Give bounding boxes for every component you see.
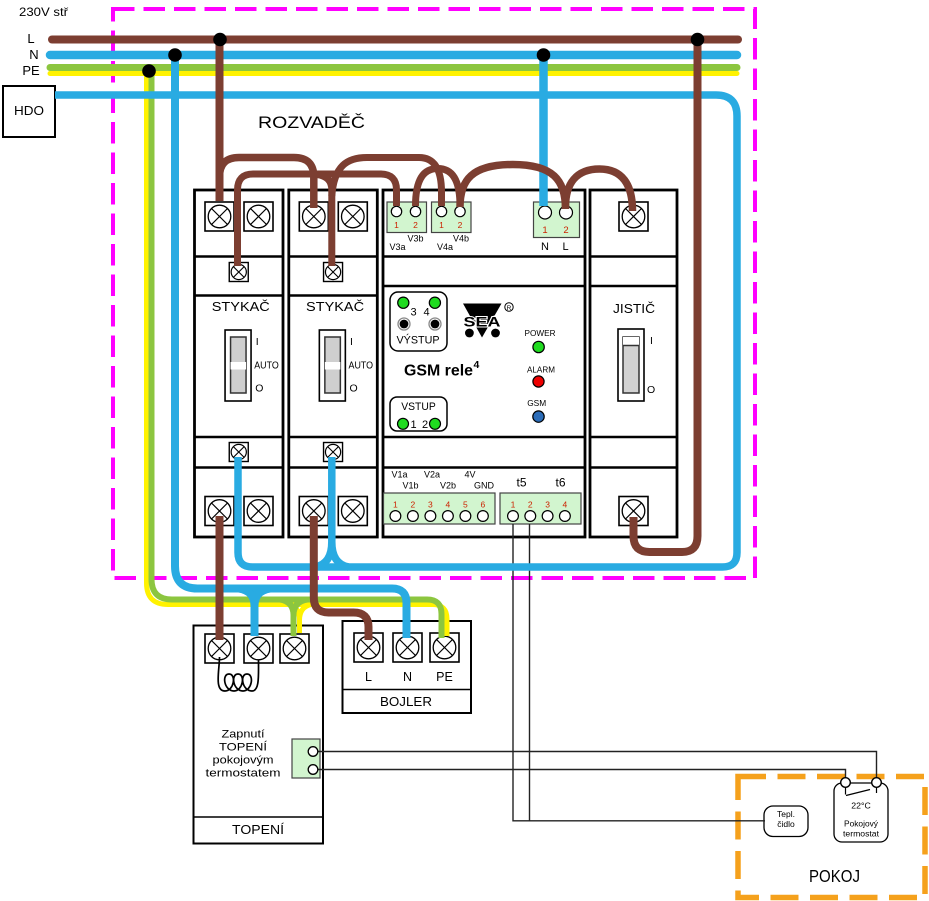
svg-text:GSM: GSM	[527, 398, 546, 408]
terminal block V4	[432, 202, 472, 233]
svg-text:STYKAČ: STYKAČ	[212, 299, 270, 314]
switch I-AUTO-O K1	[225, 330, 251, 401]
junction dot N-GSM	[537, 48, 551, 62]
svg-text:4: 4	[423, 307, 429, 319]
svg-text:O: O	[647, 384, 655, 396]
junction dot N-left	[168, 48, 182, 62]
wire thermostat contact 1	[316, 752, 877, 782]
svg-text:1: 1	[410, 419, 416, 431]
svg-text:VÝSTUP: VÝSTUP	[397, 334, 440, 347]
svg-text:6: 6	[481, 500, 486, 510]
svg-text:AUTO: AUTO	[254, 360, 279, 372]
svg-text:O: O	[350, 383, 358, 395]
wire HDO control line	[55, 95, 737, 567]
terminal TOPENI 3 PE	[280, 634, 309, 663]
thermostat switch contact symbol	[846, 784, 877, 796]
svg-text:Zapnutí: Zapnutí	[222, 729, 265, 741]
panel VSTUP with LEDs 1 2	[390, 397, 447, 431]
panel VYSTUP with LEDs 3 4	[390, 292, 447, 351]
load box TOPENI (heating)	[194, 626, 324, 844]
switch I-AUTO-O K2	[319, 330, 345, 401]
junction dot L-right	[691, 33, 705, 47]
thermostat input connector on TOPENI	[292, 739, 320, 778]
svg-text:I: I	[650, 335, 653, 347]
svg-text:V4a: V4a	[437, 242, 453, 252]
terminal top-right K1	[244, 202, 273, 231]
wire N drop left + bottom run to TOPENI 2 and BOJLER N	[175, 55, 407, 638]
terminal top-left K2	[299, 202, 328, 231]
wire PE branch to TOPENI terminal 3 (green)	[280, 600, 308, 637]
junction dot L-K1	[213, 33, 227, 47]
svg-text:3: 3	[545, 500, 550, 510]
wire PE drop + bottom run (yellow stripe)	[147, 72, 448, 636]
svg-text:2: 2	[413, 220, 418, 230]
svg-text:JISTIČ: JISTIČ	[613, 301, 655, 316]
svg-text:TOPENÍ: TOPENÍ	[219, 741, 268, 754]
terminal bottom-left K2	[299, 497, 328, 526]
terminal JISTIC top	[619, 202, 648, 231]
svg-text:ROZVADĚČ: ROZVADĚČ	[258, 113, 365, 132]
contactor STYKAC module box K2	[289, 190, 378, 537]
wire t5-2 sensor line	[529, 524, 531, 821]
GSM rele module box U1	[383, 190, 585, 537]
svg-text:22°C: 22°C	[851, 801, 871, 811]
svg-text:2: 2	[528, 500, 533, 510]
room thermostat box Pokojovy termostat	[834, 783, 888, 842]
load box BOJLER (boiler)	[343, 621, 472, 713]
terminal block t5 t6	[500, 493, 581, 524]
svg-text:STYKAČ: STYKAČ	[306, 299, 364, 314]
svg-text:L: L	[27, 31, 34, 46]
wire STYKAC1 bottom to TOPENI terminal 1	[216, 516, 224, 640]
svg-text:N: N	[403, 670, 412, 684]
terminal bottom-right K1	[244, 497, 273, 526]
coil terminal A1 K1	[229, 263, 248, 282]
svg-text:O: O	[255, 383, 263, 395]
svg-text:3: 3	[428, 500, 433, 510]
wire coil K2 drop from arc	[317, 175, 332, 267]
wire jumper STYKAC1-T1 to STYKAC2-T1 (arc)	[220, 158, 314, 209]
wire t5-1 to Tepl.cidlo (sensor line)	[513, 524, 765, 821]
svg-text:V3a: V3a	[389, 242, 405, 252]
contactor STYKAC module box K1	[195, 190, 284, 537]
room thermostat pins	[841, 778, 882, 788]
terminal bottom-right K2	[338, 497, 367, 526]
wire PE bus (yellow stripe)	[50, 71, 737, 76]
coil terminal A1 K2	[324, 263, 343, 282]
svg-text:V3b: V3b	[407, 234, 423, 244]
svg-text:PE: PE	[22, 63, 40, 78]
LED POWER	[525, 328, 556, 353]
svg-text:L: L	[562, 241, 568, 253]
wire V3b to V4b (arc)	[416, 169, 461, 207]
wire N drop to GSM N terminal	[539, 55, 548, 206]
svg-text:3: 3	[410, 307, 416, 319]
wire PE bus (green)	[50, 64, 737, 71]
svg-text:4: 4	[563, 500, 568, 510]
svg-text:1: 1	[439, 220, 444, 230]
svg-text:termostat: termostat	[843, 829, 880, 839]
svg-text:BOJLER: BOJLER	[380, 695, 432, 709]
terminal BOJLER PE	[430, 633, 459, 662]
wire PE drop + bottom run (green)	[152, 69, 442, 638]
svg-text:pokojovým: pokojovým	[213, 755, 274, 767]
terminal TOPENI 2	[244, 634, 273, 663]
svg-text:1: 1	[511, 500, 516, 510]
svg-text:L: L	[365, 670, 372, 684]
terminal BOJLER N	[393, 633, 422, 662]
label GSM rele4	[404, 359, 480, 380]
svg-text:5: 5	[463, 500, 468, 510]
svg-text:POKOJ: POKOJ	[809, 866, 860, 886]
svg-text:Pokojový: Pokojový	[844, 819, 879, 829]
wire L bus	[52, 36, 738, 44]
svg-text:PE: PE	[436, 670, 453, 684]
svg-text:TOPENÍ: TOPENÍ	[232, 822, 285, 837]
terminal block V1 V2 4V GND	[384, 493, 496, 524]
svg-text:V2a: V2a	[424, 470, 440, 480]
svg-text:AUTO: AUTO	[349, 360, 374, 372]
wire N branch into TOPENI terminal 2	[239, 589, 270, 637]
sensor box Tepl. cidlo	[764, 806, 808, 837]
svg-text:HDO: HDO	[14, 103, 44, 118]
svg-text:1: 1	[394, 220, 399, 230]
terminal block V3	[387, 202, 427, 233]
terminal JISTIC bottom	[619, 497, 648, 526]
label Zapnuti TOPENI pokojovym termostatem	[206, 729, 281, 780]
svg-text:POWER: POWER	[525, 328, 556, 338]
terminal TOPENI 1	[205, 634, 234, 663]
svg-text:R: R	[507, 305, 512, 312]
wire L input to JISTIC top (arc)	[566, 169, 633, 211]
coil bottom terminal A2 K2	[324, 443, 343, 462]
svg-text:GND: GND	[474, 481, 495, 491]
svg-text:2: 2	[563, 225, 568, 236]
coil bottom terminal A2 K1	[229, 443, 248, 462]
terminal BOJLER L	[354, 633, 383, 662]
SEA logo	[463, 303, 513, 338]
svg-text:V4b: V4b	[453, 234, 469, 244]
svg-text:N: N	[541, 241, 549, 253]
wire STYKAC2 bottom to BOJLER L	[314, 516, 369, 640]
svg-text:230V stř: 230V stř	[19, 5, 69, 19]
svg-text:I: I	[256, 336, 259, 348]
svg-text:V2b: V2b	[440, 481, 456, 491]
terminal block N L power input	[534, 202, 580, 238]
wire thermostat contact 2	[316, 770, 846, 782]
terminal bottom-left K1	[205, 497, 234, 526]
svg-text:1: 1	[393, 500, 398, 510]
enclosure ROZVADEC dashed border	[113, 9, 755, 578]
LED GSM	[527, 398, 546, 422]
svg-text:4: 4	[474, 359, 480, 371]
svg-text:4: 4	[446, 500, 451, 510]
thermostat connector pins	[308, 747, 318, 775]
svg-text:čidlo: čidlo	[777, 819, 795, 829]
wire V4b to L input (arc)	[460, 165, 566, 210]
svg-text:t6: t6	[555, 476, 565, 490]
enclosure POKOJ dashed border	[738, 777, 925, 898]
LED ALARM	[527, 365, 555, 388]
svg-text:V1b: V1b	[402, 481, 418, 491]
wire coil A2 of K2 to HDO run (Y junction)	[315, 457, 349, 567]
heating contactor coil symbol	[218, 657, 258, 691]
svg-text:V1a: V1a	[391, 470, 407, 480]
svg-text:termostatem: termostatem	[206, 768, 281, 780]
svg-text:2: 2	[458, 220, 463, 230]
circuit breaker JISTIC module box F1	[590, 190, 677, 537]
wire PE branch to TOPENI (yellow stripe)	[289, 605, 311, 634]
wire coil K1 to V3a (arc)	[238, 174, 397, 266]
terminal top-left K1	[205, 202, 234, 231]
svg-text:I: I	[350, 336, 353, 348]
svg-text:Tepl.: Tepl.	[777, 809, 795, 819]
wire arc to V4a pin 1	[332, 158, 442, 207]
svg-text:2: 2	[422, 419, 428, 431]
wire L drop to STYKAC1 top terminal	[216, 40, 224, 202]
svg-text:SEA: SEA	[464, 314, 501, 330]
svg-text:N: N	[29, 47, 38, 62]
svg-text:4V: 4V	[464, 470, 475, 480]
terminal top-right K2	[338, 202, 367, 231]
svg-text:1: 1	[542, 225, 547, 236]
breaker switch handle	[618, 329, 644, 401]
junction dot PE	[142, 64, 156, 78]
svg-text:ALARM: ALARM	[527, 365, 555, 375]
box HDO	[3, 86, 55, 137]
svg-text:GSM rele: GSM rele	[404, 363, 473, 380]
wire N bus	[50, 51, 737, 60]
wire L right drop to JISTIC bottom terminal	[634, 40, 698, 553]
svg-text:2: 2	[411, 500, 416, 510]
svg-text:VSTUP: VSTUP	[401, 401, 436, 413]
svg-text:t5: t5	[516, 476, 526, 490]
